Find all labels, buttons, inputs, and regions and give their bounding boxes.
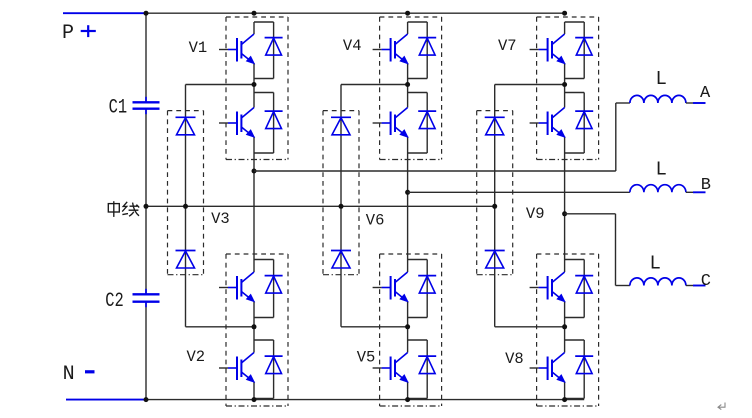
svg-text:A: A [700, 84, 711, 103]
svg-text:N: N [63, 363, 75, 386]
svg-text:C1: C1 [109, 97, 128, 120]
svg-text:C: C [701, 272, 711, 291]
svg-text:V6: V6 [366, 212, 385, 230]
svg-text:B: B [701, 176, 711, 195]
svg-text:V7: V7 [498, 37, 517, 55]
svg-text:V1: V1 [189, 39, 208, 57]
svg-text:L: L [656, 159, 667, 181]
svg-text:V2: V2 [187, 348, 206, 366]
svg-text:V9: V9 [526, 205, 545, 223]
svg-text:L: L [656, 68, 667, 90]
svg-text:C2: C2 [105, 290, 124, 313]
svg-text:V4: V4 [343, 37, 362, 55]
svg-text:L: L [650, 253, 661, 275]
svg-text:V5: V5 [357, 349, 376, 367]
svg-text:V3: V3 [211, 210, 230, 228]
svg-text:P: P [62, 22, 74, 45]
svg-text:V8: V8 [505, 350, 524, 368]
